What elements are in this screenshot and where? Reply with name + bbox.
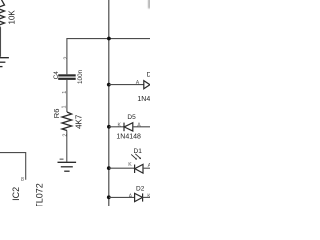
svg-text:100n: 100n xyxy=(77,69,84,84)
svg-text:1N4148: 1N4148 xyxy=(116,134,141,141)
svg-text:2: 2 xyxy=(64,57,70,60)
svg-text:D2: D2 xyxy=(136,186,145,193)
svg-text:K: K xyxy=(128,162,132,168)
svg-text:A: A xyxy=(129,193,133,199)
svg-text:A: A xyxy=(148,163,150,169)
wire D4 row xyxy=(109,84,144,86)
wire D1 row right xyxy=(143,167,150,169)
wire D5 row left xyxy=(109,126,124,128)
svg-text:2: 2 xyxy=(63,134,69,137)
svg-text:D1: D1 xyxy=(134,148,143,155)
svg-text:C4: C4 xyxy=(53,71,60,80)
wire D2 row right xyxy=(143,196,150,198)
svg-text:D4: D4 xyxy=(147,71,150,78)
svg-text:A: A xyxy=(136,80,140,86)
resistor R? 10K (cut off at left edge) xyxy=(0,0,5,27)
node junction at D5 row xyxy=(107,125,111,129)
wire R6 to ground xyxy=(66,131,68,162)
svg-text:D5: D5 xyxy=(127,114,136,121)
LED arrows of D1 xyxy=(131,154,141,160)
svg-text:4K7: 4K7 xyxy=(74,114,83,129)
ground (below R6) xyxy=(58,162,77,171)
wire D2 row left xyxy=(109,196,135,198)
diode D2 xyxy=(135,193,143,201)
svg-text:10K: 10K xyxy=(7,10,16,25)
diode D4 (cut off at right edge) xyxy=(144,81,150,89)
ground (top left, cut off) xyxy=(0,58,9,67)
wire D5 row right xyxy=(133,126,150,128)
svg-text:1N4148: 1N4148 xyxy=(137,96,150,103)
capacitor C4 xyxy=(58,74,75,80)
svg-text:TL072: TL072 xyxy=(34,183,44,206)
cut-off text smudge top right xyxy=(148,0,150,9)
resistor R6 xyxy=(62,112,72,131)
node junction at D1 row xyxy=(107,166,111,170)
svg-text:IC2: IC2 xyxy=(11,187,21,201)
LED D1 xyxy=(135,164,143,173)
svg-text:8: 8 xyxy=(21,177,24,183)
wire C4 to R6 xyxy=(66,80,68,112)
wire D1 row left xyxy=(109,167,135,169)
svg-text:K: K xyxy=(147,193,150,199)
node junction at bus/top wire xyxy=(107,37,111,41)
svg-text:A: A xyxy=(137,122,141,128)
wire top horizontal from C4 to right edge xyxy=(67,39,150,75)
wire vertical bus xyxy=(108,0,110,206)
svg-text:K: K xyxy=(118,122,122,128)
wire 10K to ground xyxy=(0,27,2,57)
svg-text:1: 1 xyxy=(62,105,68,108)
svg-text:R6: R6 xyxy=(52,109,61,119)
small dash left of ground xyxy=(60,159,64,160)
node junction at D4 row xyxy=(107,83,111,87)
diode D5 xyxy=(124,123,133,132)
node junction at D2 row xyxy=(107,195,111,199)
wire IC2 power xyxy=(0,153,26,180)
